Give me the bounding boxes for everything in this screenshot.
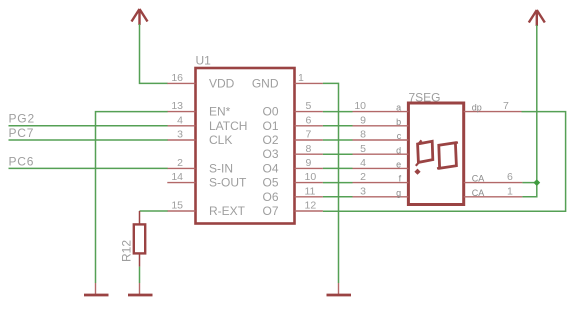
svg-text:15: 15 xyxy=(171,200,183,212)
wire GND pin to ground xyxy=(323,83,339,283)
svg-text:e: e xyxy=(396,160,401,170)
pin 5 O0 xyxy=(262,100,322,118)
svg-text:S-OUT: S-OUT xyxy=(209,176,247,190)
svg-text:4: 4 xyxy=(360,157,366,169)
svg-text:R12: R12 xyxy=(120,240,134,262)
svg-text:dp: dp xyxy=(472,103,482,113)
pin 8 O3 xyxy=(262,143,322,161)
wire PG2 to pin 4 xyxy=(9,125,168,127)
svg-text:O5: O5 xyxy=(262,176,278,190)
svg-text:2: 2 xyxy=(360,171,366,183)
7SEG pin e (4) xyxy=(353,157,409,170)
7SEG pin c (8) xyxy=(353,129,409,142)
wire O2 to segment c xyxy=(323,139,353,141)
wire R-EXT to R12 xyxy=(140,210,168,212)
svg-text:7: 7 xyxy=(306,129,312,141)
IC U1 outline xyxy=(196,54,295,224)
pin 14 S-OUT xyxy=(167,171,247,189)
svg-text:6: 6 xyxy=(507,171,513,183)
pin 12 O7 xyxy=(262,200,322,218)
7SEG pin b (9) xyxy=(353,114,409,127)
net label PC6 xyxy=(9,154,35,168)
svg-text:c: c xyxy=(397,131,402,141)
7SEG pin a (10) xyxy=(353,100,409,113)
svg-text:8: 8 xyxy=(360,129,366,141)
wire VDD net (VCC to pin 16) xyxy=(140,24,168,83)
svg-text:CA: CA xyxy=(472,174,485,184)
svg-text:1: 1 xyxy=(507,185,513,197)
ground GND3 (center) xyxy=(327,283,352,295)
svg-text:O6: O6 xyxy=(262,190,278,204)
svg-text:9: 9 xyxy=(360,114,366,126)
pin 6 O1 xyxy=(262,114,322,132)
wire PC6 to pin 2 xyxy=(9,167,168,169)
pin 11 O6 xyxy=(262,185,322,203)
svg-text:O3: O3 xyxy=(262,147,278,161)
pin 1 GND xyxy=(252,72,323,90)
svg-text:10: 10 xyxy=(305,171,317,183)
svg-text:g: g xyxy=(396,188,401,198)
pin 15 R-EXT xyxy=(167,200,245,218)
svg-text:16: 16 xyxy=(171,72,183,84)
svg-text:12: 12 xyxy=(305,200,317,212)
pin 16 VDD xyxy=(167,72,234,90)
svg-text:9: 9 xyxy=(306,157,312,169)
supply symbol VCC (left arrow) xyxy=(132,9,148,25)
wire O4 to segment e xyxy=(323,167,353,169)
7SEG pin f (2) xyxy=(353,171,409,184)
svg-text:4: 4 xyxy=(177,114,183,126)
wire EN* to ground xyxy=(96,112,168,283)
svg-text:CA: CA xyxy=(472,188,485,198)
svg-text:7: 7 xyxy=(503,100,509,112)
svg-text:14: 14 xyxy=(171,171,183,183)
wire O6 to segment g xyxy=(323,196,353,198)
pin 7 O2 xyxy=(262,129,322,147)
svg-text:VDD: VDD xyxy=(209,76,235,90)
wire PC7 to pin 3 xyxy=(9,139,168,141)
svg-text:a: a xyxy=(396,103,401,113)
svg-text:6: 6 xyxy=(306,114,312,126)
svg-text:2: 2 xyxy=(177,157,183,169)
net label PC7 xyxy=(9,126,35,140)
svg-text:PC7: PC7 xyxy=(9,126,35,140)
7-segment display 7SEG outline xyxy=(408,91,463,205)
pin 3 CLK xyxy=(167,129,232,147)
svg-text:CLK: CLK xyxy=(209,133,232,147)
svg-text:d: d xyxy=(396,145,401,155)
svg-text:S-IN: S-IN xyxy=(209,161,233,175)
svg-text:O2: O2 xyxy=(262,133,278,147)
svg-text:10: 10 xyxy=(354,100,366,112)
7SEG pin g (3) xyxy=(353,185,409,198)
svg-text:b: b xyxy=(396,117,401,127)
wire O1 to segment b xyxy=(323,125,353,127)
svg-text:O4: O4 xyxy=(262,161,278,175)
wire O3 to segment d xyxy=(323,153,353,155)
wire O0 to segment a xyxy=(323,111,353,113)
wire VCC to CA pins xyxy=(522,25,536,197)
svg-text:U1: U1 xyxy=(196,54,212,68)
wire O7 to dp (long loop) xyxy=(323,112,566,212)
svg-text:GND: GND xyxy=(252,76,279,90)
svg-text:1: 1 xyxy=(298,72,304,84)
net label PG2 xyxy=(9,112,35,126)
svg-text:O0: O0 xyxy=(262,105,278,119)
wire O5 to segment f xyxy=(323,182,353,184)
7SEG pin dp (7) xyxy=(464,100,522,113)
pin 10 O5 xyxy=(262,171,322,189)
svg-text:PC6: PC6 xyxy=(9,154,35,168)
wire R12 to ground xyxy=(139,267,141,283)
7SEG pin d (5) xyxy=(353,143,409,156)
svg-text:EN*: EN* xyxy=(209,105,231,119)
svg-text:13: 13 xyxy=(171,100,183,112)
svg-text:LATCH: LATCH xyxy=(209,119,247,133)
svg-text:3: 3 xyxy=(177,129,183,141)
svg-text:7SEG: 7SEG xyxy=(409,91,441,105)
ground GND1 (left) xyxy=(84,283,109,295)
pin 9 O4 xyxy=(262,157,322,175)
7SEG digit graphic xyxy=(416,140,458,168)
supply symbol VCC (right arrow) xyxy=(529,10,545,26)
svg-text:PG2: PG2 xyxy=(9,112,35,126)
ground GND2 (below R12) xyxy=(128,283,153,295)
7SEG pin CA (6) xyxy=(464,171,523,184)
svg-text:O7: O7 xyxy=(262,204,278,218)
pin 13 EN* xyxy=(167,100,230,118)
svg-text:11: 11 xyxy=(305,185,316,197)
7SEG decimal point diamond xyxy=(414,169,420,175)
pin 2 S-IN xyxy=(167,157,233,175)
svg-text:O1: O1 xyxy=(262,119,278,133)
resistor R12 xyxy=(120,211,146,267)
svg-text:3: 3 xyxy=(360,185,366,197)
svg-text:5: 5 xyxy=(360,143,366,155)
svg-text:8: 8 xyxy=(306,143,312,155)
svg-text:5: 5 xyxy=(306,100,312,112)
svg-text:R-EXT: R-EXT xyxy=(209,204,246,218)
7SEG pin CA (1) xyxy=(464,185,523,198)
pin 4 LATCH xyxy=(167,114,247,132)
junction dot at CA 6 xyxy=(533,179,540,186)
